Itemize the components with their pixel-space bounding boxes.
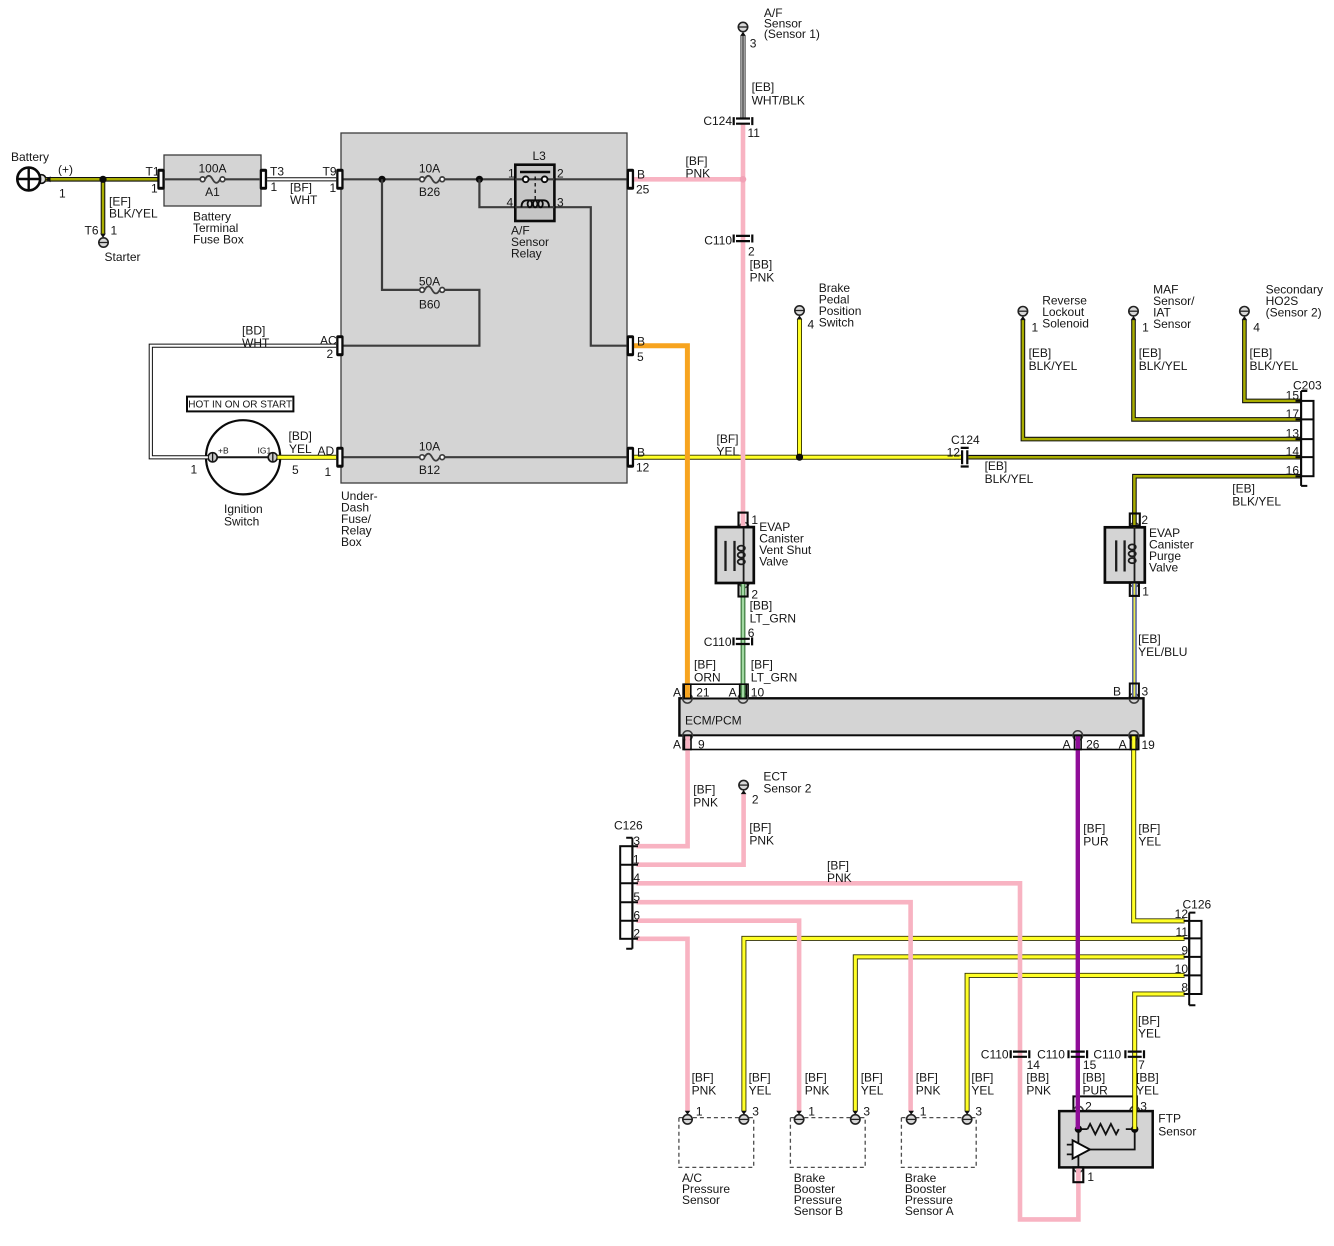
svg-text:8: 8 <box>1181 981 1188 995</box>
wire [BF] PNK ECM A9 to C126-3 <box>637 736 688 847</box>
svg-text:1: 1 <box>1142 585 1149 599</box>
svg-text:2: 2 <box>752 793 759 807</box>
HOT IN ON OR START banner <box>187 397 293 412</box>
terminal ECT sensor 2 pin 2 <box>739 780 748 789</box>
wire [BF] PNK C126-6 to brake booster pressure sensor B pin 1 <box>637 921 802 1115</box>
fuse B26 10A <box>420 176 445 183</box>
svg-text:T3: T3 <box>270 165 284 179</box>
svg-text:[BF]: [BF] <box>749 821 771 835</box>
wire [BF] PNK ECT sensor 2 to C126-1 <box>637 790 747 865</box>
svg-text:[BB]: [BB] <box>750 599 773 613</box>
svg-text:17: 17 <box>1286 407 1300 421</box>
svg-text:12: 12 <box>636 461 650 475</box>
connector C110 pin 7 inline <box>1125 1050 1144 1058</box>
FTP sensor pin 1 slot <box>1073 1167 1083 1182</box>
svg-text:2: 2 <box>1141 513 1148 527</box>
wire YEL brake pedal position switch <box>797 315 803 457</box>
wire [BF] YEL brake booster pressure sensor A pin 3 to C126-10 <box>964 975 1184 1114</box>
wire [EB] BLK/YEL C203-16 to EVAP purge valve pin 2 <box>1134 476 1301 527</box>
svg-text:[BB]: [BB] <box>750 258 773 272</box>
svg-text:5: 5 <box>637 350 644 364</box>
svg-text:HOT IN ON OR START: HOT IN ON OR START <box>188 400 292 411</box>
ECM pin slot A9 <box>684 736 691 750</box>
ignition switch <box>206 420 280 494</box>
svg-text:Valve: Valve <box>759 555 788 569</box>
svg-text:11: 11 <box>1176 925 1189 939</box>
connector bar T1 <box>157 169 164 190</box>
svg-text:[BD]: [BD] <box>289 429 312 443</box>
svg-text:Sensor A: Sensor A <box>905 1204 954 1218</box>
terminal brake pedal position switch pin 4 <box>795 306 804 315</box>
wire [BD] YEL IG1 to AD <box>277 455 336 460</box>
fuse A1 100A <box>165 176 260 183</box>
connector bar B12 <box>627 447 634 468</box>
svg-text:C126: C126 <box>614 819 643 833</box>
svg-text:Sensor: Sensor <box>682 1193 720 1207</box>
ECM/PCM bottom pin strip (A9 A26 A19) <box>683 736 1139 750</box>
svg-text:3: 3 <box>633 834 640 848</box>
svg-text:1: 1 <box>808 1105 815 1119</box>
terminal A/C pressure sensor pin 1 <box>683 1115 692 1124</box>
svg-text:4: 4 <box>808 318 815 332</box>
wire [BB]/[BF] LT_GRN vent shut valve pin 2 to ECM A10 <box>741 583 746 698</box>
svg-text:10A: 10A <box>419 162 440 176</box>
svg-text:PUR: PUR <box>1083 835 1109 849</box>
svg-text:[BF]: [BF] <box>749 1071 771 1085</box>
connector bar AD pin 1 <box>336 447 343 468</box>
svg-text:[EB]: [EB] <box>1029 346 1052 360</box>
vent shut valve pin 2 slot <box>739 583 748 597</box>
svg-text:10: 10 <box>1175 962 1189 976</box>
wire PNK C124 to EVAP vent shut valve pin 1 <box>741 124 746 527</box>
svg-text:YEL: YEL <box>861 1084 884 1098</box>
svg-text:YEL: YEL <box>971 1084 994 1098</box>
A/C pressure sensor dashed box <box>679 1118 754 1168</box>
svg-text:12: 12 <box>947 446 961 460</box>
svg-text:[BF]: [BF] <box>1083 822 1105 836</box>
svg-text:ORN: ORN <box>694 671 721 685</box>
svg-text:(+): (+) <box>58 163 73 177</box>
ECM pin slot A19 <box>1130 736 1137 750</box>
svg-text:[BF]: [BF] <box>971 1071 993 1085</box>
svg-text:Sensor B: Sensor B <box>794 1204 843 1218</box>
svg-text:B: B <box>637 168 645 182</box>
svg-text:21: 21 <box>696 686 710 700</box>
terminal starter T6 <box>99 238 108 247</box>
svg-text:C110: C110 <box>1093 1048 1121 1062</box>
svg-text:BLK/YEL: BLK/YEL <box>1250 359 1299 373</box>
svg-text:LT_GRN: LT_GRN <box>750 612 796 626</box>
svg-text:B: B <box>637 446 645 460</box>
wire [EF] BLK/YEL to starter <box>100 179 106 238</box>
svg-text:AC: AC <box>320 334 337 348</box>
wire [EB] BLK/YEL C124-12 to C203-14 <box>969 455 1302 460</box>
svg-text:Solenoid: Solenoid <box>1042 317 1089 331</box>
wire [BF] YEL ECM A19 to C126-12 <box>1134 736 1185 921</box>
svg-text:IG1: IG1 <box>258 446 272 456</box>
wire [BF] YEL brake booster pressure sensor B pin 3 to C126-9 <box>853 957 1185 1115</box>
svg-text:Valve: Valve <box>1149 561 1178 575</box>
ECM pin slot A21 <box>684 684 691 698</box>
fuse B12 10A <box>420 454 445 461</box>
connector C110 pin 14 inline <box>1011 1050 1030 1058</box>
svg-text:19: 19 <box>1142 738 1156 752</box>
junction at relay pin1 branch <box>476 176 483 183</box>
svg-text:L3: L3 <box>533 149 547 163</box>
svg-text:Sensor: Sensor <box>1158 1125 1196 1139</box>
svg-text:100A: 100A <box>198 162 226 176</box>
svg-text:Fuse Box: Fuse Box <box>193 233 244 247</box>
svg-text:PNK: PNK <box>686 167 711 181</box>
svg-text:BLK/YEL: BLK/YEL <box>1029 359 1078 373</box>
wire [BF] ORN B5 to ECM A21 <box>634 346 688 699</box>
ECM pin slot A10 <box>740 684 747 698</box>
under-dash fuse/relay box <box>341 133 627 483</box>
svg-text:B12: B12 <box>419 463 441 477</box>
ECM/PCM pin circles <box>683 694 1139 741</box>
svg-text:1: 1 <box>325 465 332 479</box>
svg-text:26: 26 <box>1086 738 1100 752</box>
svg-text:[EB]: [EB] <box>1139 346 1162 360</box>
svg-text:[BF]: [BF] <box>861 1071 883 1085</box>
svg-text:[EB]: [EB] <box>1138 632 1161 646</box>
svg-text:WHT: WHT <box>242 336 270 350</box>
terminal brake booster pressure sensor B pin 3 <box>851 1115 860 1124</box>
battery <box>17 168 46 191</box>
svg-text:10: 10 <box>751 686 765 700</box>
vent shut valve pin 1 slot <box>739 513 748 528</box>
svg-text:C110: C110 <box>1037 1048 1065 1062</box>
svg-text:YEL: YEL <box>717 445 740 459</box>
svg-text:PNK: PNK <box>916 1084 941 1098</box>
svg-text:[EB]: [EB] <box>1232 482 1255 496</box>
svg-text:50A: 50A <box>419 275 440 289</box>
terminal secondary HO2S pin 4 <box>1240 307 1249 316</box>
junction brake pedal wire to B12 wire <box>796 454 803 461</box>
connector bar T3 <box>260 169 267 190</box>
svg-text:1: 1 <box>751 513 758 527</box>
svg-text:T1: T1 <box>146 165 160 179</box>
svg-text:[BF]: [BF] <box>693 783 715 797</box>
svg-text:6: 6 <box>748 626 755 640</box>
wire [BF] PNK C126-5 to brake booster pressure sensor A pin 1 <box>637 902 915 1115</box>
svg-text:[BF]: [BF] <box>751 658 773 672</box>
wire relay pin3 to B5 <box>554 207 626 346</box>
svg-text:C124: C124 <box>703 114 732 128</box>
svg-text:12: 12 <box>1175 907 1189 921</box>
svg-text:BLK/YEL: BLK/YEL <box>109 207 158 221</box>
wire [EB] YEL/BLU purge valve pin 1 to ECM B3 <box>1132 583 1137 699</box>
ECM pin slot B3 <box>1130 684 1139 698</box>
svg-text:[BB]: [BB] <box>1026 1071 1049 1085</box>
brake booster pressure sensor A dashed box <box>901 1118 976 1168</box>
EVAP canister vent shut valve <box>716 523 754 588</box>
svg-text:2: 2 <box>557 167 564 181</box>
svg-text:1: 1 <box>633 853 640 867</box>
battery terminal fuse box <box>164 155 261 206</box>
svg-text:1: 1 <box>696 1105 703 1119</box>
connector bar AC pin 2 <box>336 335 343 356</box>
svg-text:[BB]: [BB] <box>1083 1071 1106 1085</box>
ECM/PCM box <box>679 698 1143 735</box>
connector C110 pin 2 inline <box>734 235 753 243</box>
svg-text:C110: C110 <box>704 234 732 248</box>
wire [EB] BLK/YEL secondary HO2S to C203-15 <box>1242 316 1302 401</box>
svg-text:1: 1 <box>1032 321 1039 335</box>
svg-text:LT_GRN: LT_GRN <box>751 671 797 685</box>
svg-text:[BF]: [BF] <box>805 1071 827 1085</box>
EVAP canister purge valve <box>1105 523 1145 587</box>
wire [EB] BLK/YEL MAF sensor to C203-17 <box>1131 316 1301 419</box>
svg-text:PNK: PNK <box>693 796 718 810</box>
connector bar T9 <box>336 169 343 190</box>
wire [BF]/[BB] PNK C126-4 to FTP sensor pin 1 <box>637 883 1079 1219</box>
svg-text:1: 1 <box>271 180 278 194</box>
svg-text:[BF]: [BF] <box>1138 822 1160 836</box>
svg-text:[BF]: [BF] <box>694 658 716 672</box>
svg-text:B: B <box>1113 685 1121 699</box>
svg-text:[EB]: [EB] <box>752 80 775 94</box>
svg-text:9: 9 <box>1181 944 1188 958</box>
brake booster pressure sensor B dashed box <box>790 1118 865 1168</box>
svg-text:6: 6 <box>633 909 640 923</box>
svg-text:9: 9 <box>698 738 705 752</box>
svg-text:2: 2 <box>1085 1100 1092 1114</box>
wire [EB] BLK/YEL reverse lockout solenoid to C203-13 <box>1020 316 1301 439</box>
wire [EB] WHT/BLK A/F sensor to C124 <box>740 32 746 118</box>
svg-text:14: 14 <box>1286 445 1300 459</box>
svg-text:PNK: PNK <box>805 1084 830 1098</box>
svg-text:PNK: PNK <box>692 1084 717 1098</box>
wire internal bus T9 to B25 <box>344 178 627 180</box>
svg-text:1: 1 <box>111 224 118 238</box>
connector C126 left (pins 3 1 4 5 6 2) <box>620 838 638 949</box>
svg-text:WHT: WHT <box>290 193 318 207</box>
connector C110 pin 6 inline <box>734 637 753 645</box>
FTP sensor connector bracket <box>1073 1096 1137 1111</box>
svg-text:YEL: YEL <box>749 1084 772 1098</box>
svg-text:Sensor 2: Sensor 2 <box>763 782 811 796</box>
wire [BF] PUR ECM A26 to FTP sensor pin 2 <box>1076 736 1080 1130</box>
terminal brake booster pressure sensor B pin 1 <box>794 1115 803 1124</box>
svg-text:[BF]: [BF] <box>692 1071 714 1085</box>
svg-text:PNK: PNK <box>1026 1084 1051 1098</box>
svg-text:C110: C110 <box>704 635 732 649</box>
svg-text:(Sensor 2): (Sensor 2) <box>1266 306 1322 320</box>
svg-text:2: 2 <box>748 245 755 259</box>
ECM/PCM top pin strip (A21 A10) <box>683 684 748 698</box>
svg-text:BLK/YEL: BLK/YEL <box>1232 495 1281 509</box>
svg-text:[BF]: [BF] <box>1138 1014 1160 1028</box>
svg-text:A: A <box>729 686 737 700</box>
junction pink <box>740 176 747 183</box>
terminal MAF sensor pin 1 <box>1129 307 1138 316</box>
svg-text:AD: AD <box>318 444 335 458</box>
svg-text:4: 4 <box>633 871 640 885</box>
svg-text:WHT/BLK: WHT/BLK <box>752 94 805 108</box>
connector C124 pin 11 inline <box>734 117 753 125</box>
svg-text:YEL: YEL <box>289 442 312 456</box>
svg-text:1: 1 <box>508 167 515 181</box>
connector C126 right (pins 12 11 9 10 8) <box>1184 913 1202 1006</box>
svg-text:YEL: YEL <box>1136 1084 1159 1098</box>
svg-text:10A: 10A <box>419 440 440 454</box>
svg-text:3: 3 <box>557 196 564 210</box>
svg-text:1: 1 <box>330 181 337 195</box>
svg-text:YEL: YEL <box>1138 835 1161 849</box>
svg-text:C110: C110 <box>981 1048 1009 1062</box>
fuse B60 50A <box>420 286 445 293</box>
svg-text:B26: B26 <box>419 185 441 199</box>
svg-text:T6: T6 <box>85 224 99 238</box>
svg-text:1: 1 <box>151 182 158 196</box>
svg-text:3: 3 <box>750 37 757 51</box>
ECM pin slot A26 <box>1075 736 1082 750</box>
svg-text:1: 1 <box>1087 1170 1094 1184</box>
junction battery/starter <box>99 176 106 183</box>
terminal brake booster pressure sensor A pin 1 <box>907 1115 916 1124</box>
wire [BF]/[BB] YEL C126-8 to FTP sensor pin 3 <box>1135 994 1185 1129</box>
svg-text:BLK/YEL: BLK/YEL <box>1139 359 1188 373</box>
wire [BF] PNK C126-2 to A/C pressure sensor pin 1 <box>637 939 691 1115</box>
svg-text:Battery: Battery <box>11 150 49 164</box>
svg-text:1: 1 <box>191 463 198 477</box>
svg-text:PUR: PUR <box>1083 1084 1109 1098</box>
svg-text:4: 4 <box>507 196 514 210</box>
svg-text:B: B <box>637 335 645 349</box>
svg-text:Switch: Switch <box>224 515 259 529</box>
terminal brake booster pressure sensor A pin 3 <box>962 1115 971 1124</box>
svg-text:3: 3 <box>1142 685 1149 699</box>
svg-text:15: 15 <box>1286 389 1300 403</box>
terminal reverse lockout solenoid pin 1 <box>1018 307 1027 316</box>
svg-text:3: 3 <box>975 1105 982 1119</box>
svg-text:A1: A1 <box>205 185 220 199</box>
svg-text:13: 13 <box>1286 427 1300 441</box>
svg-text:A: A <box>1119 738 1127 752</box>
svg-text:B60: B60 <box>419 298 441 312</box>
svg-text:BLK/YEL: BLK/YEL <box>985 472 1034 486</box>
svg-text:Relay: Relay <box>511 247 542 261</box>
wire [BF] PNK B25 <box>634 177 743 182</box>
connector bar B5 <box>627 335 634 356</box>
svg-text:[EB]: [EB] <box>985 459 1008 473</box>
connector C203 (pins 15 17 13 14 16) <box>1296 391 1314 486</box>
purge valve pin 2 slot <box>1130 514 1140 527</box>
terminal A/C pressure sensor pin 3 <box>739 1115 748 1124</box>
relay L3 A/F sensor relay <box>515 165 554 221</box>
svg-text:YEL/BLU: YEL/BLU <box>1138 645 1187 659</box>
FTP sensor <box>1059 1106 1153 1172</box>
purge valve pin 1 slot <box>1130 583 1139 596</box>
svg-text:3: 3 <box>752 1105 759 1119</box>
svg-text:5: 5 <box>292 463 299 477</box>
terminal A/F sensor pin 3 <box>738 22 747 31</box>
svg-text:1: 1 <box>59 187 66 201</box>
svg-text:Sensor: Sensor <box>1153 317 1191 331</box>
svg-text:FTP: FTP <box>1158 1112 1181 1126</box>
svg-text:+B: +B <box>218 446 229 456</box>
svg-text:Starter: Starter <box>105 250 141 264</box>
wire relay pin4 branch <box>479 179 515 207</box>
wire [BF] YEL B12 to C124-12 <box>634 455 961 460</box>
connector C124 pin 12 inline <box>961 448 969 467</box>
svg-text:A: A <box>1063 738 1071 752</box>
svg-text:YEL: YEL <box>1138 1027 1161 1041</box>
wire branch to 50A fuse and AC <box>344 179 480 345</box>
wire battery (+) [EF] BLK/YEL to T1 <box>46 176 158 182</box>
svg-text:1: 1 <box>920 1105 927 1119</box>
wire [BF] YEL A/C pressure sensor pin 3 to C126-11 <box>741 938 1185 1114</box>
svg-text:Switch: Switch <box>819 316 854 330</box>
svg-text:4: 4 <box>1253 321 1260 335</box>
svg-text:25: 25 <box>636 183 650 197</box>
svg-text:A: A <box>673 738 681 752</box>
wire AD to B12 <box>344 456 627 458</box>
svg-text:(Sensor 1): (Sensor 1) <box>764 27 820 41</box>
svg-text:11: 11 <box>748 126 761 140</box>
svg-text:2: 2 <box>327 347 334 361</box>
svg-text:[BB]: [BB] <box>1136 1071 1159 1085</box>
svg-text:[BF]: [BF] <box>916 1071 938 1085</box>
svg-text:ECM/PCM: ECM/PCM <box>685 714 742 728</box>
svg-text:T9: T9 <box>323 165 337 179</box>
svg-text:16: 16 <box>1286 464 1300 478</box>
svg-text:3: 3 <box>863 1105 870 1119</box>
wire [BF] WHT T3 to T9 <box>267 177 336 181</box>
svg-text:1: 1 <box>1142 321 1149 335</box>
connector bar B25 <box>627 169 634 190</box>
connector C110 pin 15 inline <box>1069 1050 1088 1058</box>
svg-text:Box: Box <box>341 535 362 549</box>
svg-text:PNK: PNK <box>749 834 774 848</box>
svg-text:2: 2 <box>633 927 640 941</box>
svg-text:A: A <box>673 686 681 700</box>
svg-text:PNK: PNK <box>827 871 852 885</box>
svg-text:5: 5 <box>633 890 640 904</box>
wire [BD] WHT AC to ignition +B <box>151 346 336 458</box>
svg-text:PNK: PNK <box>750 271 775 285</box>
svg-text:[EB]: [EB] <box>1250 346 1273 360</box>
junction at B26 branch <box>378 176 385 183</box>
svg-text:3: 3 <box>1140 1100 1147 1114</box>
